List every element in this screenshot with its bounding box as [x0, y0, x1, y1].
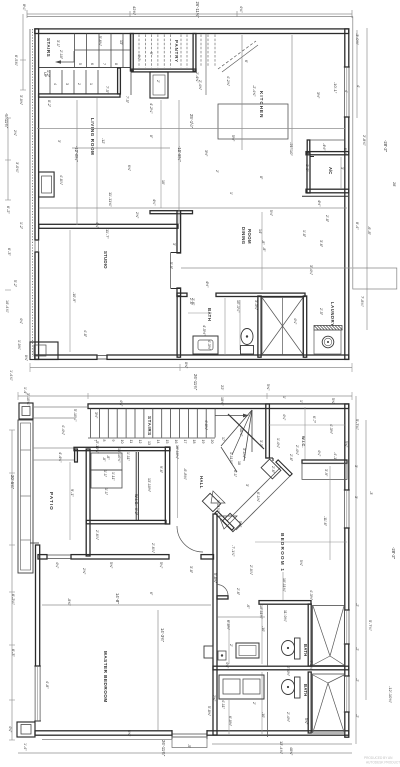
svg-text:11'-11⅝": 11'-11⅝": [108, 192, 113, 207]
plan2 bedroom1 dim lines: [255, 466, 347, 560]
plan2 wic2 south wall: [302, 460, 347, 463]
svg-text:2': 2': [229, 644, 233, 647]
plan1 dining label: [241, 227, 252, 245]
svg-text:2⅝": 2⅝": [82, 568, 86, 575]
svg-text:-6'-8": -6'-8": [367, 226, 372, 236]
plan2 stair south wall: [74, 447, 170, 462]
svg-text:-2': -2': [355, 603, 359, 607]
svg-text:5'-8⅝": 5'-8⅝": [213, 573, 217, 584]
plan2 right wall c: [345, 644, 349, 676]
plan1 kitchen island: [218, 104, 288, 139]
plan2 angled wall lower: [215, 511, 234, 530]
plan2 scattered dims: [55, 398, 337, 737]
plan1 stairs lower treads: [50, 70, 98, 94]
plan2 jamb3: [222, 513, 240, 531]
plan2 toilet2: [282, 677, 301, 698]
svg-text:4¼": 4¼": [282, 414, 286, 421]
plan2 jamb2: [202, 493, 220, 511]
svg-text:4'-5½": 4'-5½": [202, 325, 206, 336]
svg-text:14: 14: [156, 440, 160, 444]
plan1 left margin: [4, 4, 26, 381]
svg-text:1'-8": 1'-8": [302, 230, 306, 238]
plan1 stairs south wall: [39, 68, 121, 97]
plan1 dim vline bath: [188, 298, 225, 355]
svg-text:-10': -10': [261, 626, 265, 632]
svg-text:20'-5¾": 20'-5¾": [10, 475, 15, 490]
svg-text:8⅝": 8⅝": [24, 355, 28, 362]
plan1 dim 4-2: [149, 103, 153, 114]
plan2 top pier: [19, 403, 33, 419]
plan2 right wall a: [345, 404, 349, 490]
svg-text:4'-2⅛": 4'-2⅛": [149, 103, 153, 114]
svg-text:1': 1': [299, 400, 303, 403]
svg-text:17: 17: [221, 437, 225, 441]
svg-text:2': 2': [215, 170, 219, 173]
svg-text:1'-11": 1'-11": [111, 472, 115, 481]
svg-text:-5'-11¾": -5'-11¾": [4, 113, 9, 129]
plan2 bath1 corner fixture: [218, 651, 226, 660]
svg-text:4¾": 4¾": [95, 222, 99, 229]
plan2 bath2 vanity: [219, 675, 264, 699]
svg-text:11: 11: [129, 440, 133, 444]
svg-text:4¾": 4¾": [225, 662, 229, 669]
svg-text:4⅛": 4⅛": [293, 318, 297, 325]
plan1 left siding lines: [30, 29, 32, 357]
svg-text:-2': -2': [355, 647, 359, 651]
plan1 ac niche: [307, 140, 344, 153]
plan1 studio upper wall: [150, 211, 193, 214]
svg-text:BATH: BATH: [207, 308, 212, 321]
svg-text:9'-1": 9'-1": [70, 489, 75, 497]
plan2 right wall d: [345, 712, 349, 737]
svg-text:10'-1¼": 10'-1¼": [236, 300, 240, 313]
svg-text:48⅝": 48⅝": [289, 747, 293, 756]
svg-text:14': 14': [258, 229, 262, 234]
svg-text:26'-11¾": 26'-11¾": [193, 374, 198, 391]
plan2 top dim texts: [23, 384, 286, 406]
plan2 right wall b: [345, 528, 349, 610]
svg-text:13: 13: [147, 441, 151, 445]
plan2 bottom pier: [17, 722, 35, 737]
plan1 stairwell box: [262, 298, 303, 355]
plan2 stairs bottom line: [88, 437, 215, 439]
plan2 angled wall upper: [276, 460, 292, 476]
svg-text:1'-2": 1'-2": [46, 70, 50, 78]
plan1 ac label: [328, 167, 333, 174]
svg-text:LAUNDRY: LAUNDRY: [330, 302, 335, 327]
svg-text:5⅝": 5⅝": [304, 718, 308, 725]
plan2 winder opening line: [228, 414, 264, 449]
svg-text:5⅞": 5⅞": [238, 521, 242, 528]
plan1 left ticks: [5, 60, 26, 290]
plan1 washer: [322, 336, 334, 348]
plan2 watermark: [364, 756, 400, 765]
svg-text:11'-0¾": 11'-0¾": [283, 610, 287, 623]
plan1 bottom pier: [30, 342, 58, 360]
plan2 stairs arrow: [215, 414, 249, 418]
plan1 dim 25-1: [189, 114, 194, 129]
svg-text:BATH: BATH: [303, 684, 308, 697]
svg-text:4'-2⅝": 4'-2⅝": [226, 76, 230, 87]
svg-text:8¼": 8¼": [22, 4, 26, 11]
plan2 bath1 arc: [217, 585, 228, 596]
svg-text:6: 6: [90, 63, 94, 65]
svg-text:8: 8: [114, 63, 118, 65]
svg-text:-6'-8¾": -6'-8¾": [183, 468, 187, 481]
plan1 studio east wall: [171, 211, 182, 296]
svg-text:1': 1': [229, 192, 233, 195]
svg-text:5': 5': [149, 52, 153, 55]
plan1 bath west wall: [177, 296, 180, 357]
plan1 kitchen counter line: [205, 34, 207, 96]
svg-text:18: 18: [237, 461, 241, 465]
svg-text:-21'-10": -21'-10": [289, 142, 294, 156]
svg-text:12: 12: [138, 440, 142, 444]
svg-text:3'-8": 3'-8": [189, 566, 193, 574]
plan1 corner cab dashes: [201, 35, 215, 67]
plan2 bottom margin: [18, 740, 352, 757]
svg-text:6'-7": 6'-7": [312, 416, 316, 424]
plan2 patio south jog: [30, 542, 39, 544]
svg-text:A/C: A/C: [328, 167, 333, 174]
plan2 stair east wall: [266, 404, 270, 458]
plan1 left wall: [35, 29, 39, 360]
svg-text:4: 4: [53, 83, 57, 85]
svg-text:16: 16: [174, 440, 178, 444]
svg-text:15: 15: [165, 440, 169, 444]
plan1 pantry south wall: [132, 69, 196, 72]
svg-text:5⅝": 5⅝": [344, 441, 348, 448]
svg-text:5'-6⅛": 5'-6⅛": [98, 36, 102, 47]
plan1 laundry box: [314, 330, 341, 354]
svg-text:4¼": 4¼": [55, 562, 59, 569]
plan1 dim hline short: [72, 147, 170, 149]
svg-text:-3'-0½": -3'-0½": [355, 33, 359, 46]
svg-text:-4'-1": -4'-1": [333, 452, 337, 461]
plan1 stairs numbers up: [78, 63, 118, 65]
svg-text:3'-6": 3'-6": [319, 240, 323, 248]
plan1 bath vanity: [193, 336, 218, 354]
svg-text:4'-11": 4'-11": [221, 700, 225, 710]
plan1 stairs label: [46, 38, 51, 57]
svg-text:18: 18: [192, 440, 196, 444]
svg-text:-10'-8¾": -10'-8¾": [177, 146, 182, 162]
plan1 bottom wall left: [35, 355, 97, 359]
plan1 ac dim line: [340, 157, 342, 189]
plan1 dim 7-5: [105, 86, 109, 94]
svg-text:6'-3": 6'-3": [11, 649, 16, 657]
svg-text:3': 3': [172, 243, 176, 246]
svg-text:3': 3': [340, 167, 344, 170]
plan1 pantry label: [174, 40, 179, 63]
plan1 ac dims: [305, 143, 344, 207]
plan1 dim vlines kitchen: [242, 35, 292, 150]
svg-text:2⅝": 2⅝": [212, 695, 216, 702]
plan2 right window1: [344, 490, 350, 528]
svg-text:6'-2¼": 6'-2¼": [11, 594, 16, 606]
plan2 stairs numbers: [93, 440, 214, 444]
svg-text:-8": -8": [262, 247, 266, 252]
plan2 bath dim lines: [229, 572, 283, 734]
svg-text:2'-6": 2'-6": [236, 588, 240, 596]
plan1 fireplace: [39, 172, 55, 197]
svg-text:6'-5⅞": 6'-5⅞": [14, 55, 19, 67]
svg-text:26'-11¾": 26'-11¾": [161, 740, 166, 757]
svg-text:4¾": 4¾": [8, 726, 12, 733]
plan1 stairs mid line: [75, 49, 132, 51]
svg-text:-10'-9": -10'-9": [72, 292, 76, 303]
plan2 jamb1: [261, 459, 281, 479]
plan2 wic shelves: [91, 453, 122, 488]
svg-text:5½": 5½": [269, 210, 273, 217]
svg-text:1'-11": 1'-11": [126, 452, 130, 462]
svg-text:6'-2": 6'-2": [134, 508, 138, 516]
svg-text:6'-1⅝": 6'-1⅝": [256, 492, 260, 503]
plan1 dim 21-1: [289, 142, 294, 156]
plan2 right window2: [344, 610, 350, 644]
svg-text:PANTRY: PANTRY: [174, 40, 179, 63]
svg-text:3½": 3½": [94, 412, 98, 419]
svg-text:-12'-10¾": -12'-10¾": [388, 686, 393, 704]
svg-text:8'-4": 8'-4": [355, 222, 359, 230]
svg-text:2'-4⅝": 2'-4⅝": [198, 80, 202, 91]
svg-text:16'-10¾": 16'-10¾": [175, 445, 179, 460]
plan2 west wall: [36, 545, 40, 666]
svg-text:3': 3': [57, 140, 61, 143]
svg-text:4¼": 4¼": [119, 400, 123, 407]
svg-text:-12'-8¼": -12'-8¼": [74, 146, 79, 162]
svg-text:1'-1": 1'-1": [103, 470, 107, 478]
svg-text:2'-6⅞": 2'-6⅞": [95, 530, 99, 541]
svg-text:3'-0⅝": 3'-0⅝": [15, 162, 19, 173]
svg-text:13': 13': [119, 40, 123, 45]
svg-text:-28'-2": -28'-2": [383, 140, 388, 153]
plan1 outer boundary: [27, 17, 353, 269]
svg-text:22': 22': [220, 385, 225, 390]
plan2 wic2 label: [301, 436, 306, 448]
plan2 bath2 label: [303, 684, 308, 697]
svg-text:-8": -8": [106, 455, 110, 460]
plan2 wic label: [134, 494, 139, 506]
plan1 top wall: [35, 29, 349, 34]
plan2 corridor arc: [177, 526, 203, 552]
svg-text:1'-1": 1'-1": [104, 488, 108, 496]
svg-text:3'-0⅝": 3'-0⅝": [19, 95, 23, 106]
svg-text:5'-9": 5'-9": [169, 262, 173, 270]
plan2 patio dims: [26, 393, 77, 497]
plan1 stairwell X: [262, 298, 303, 355]
svg-text:2'-0⅞": 2'-0⅞": [249, 565, 253, 576]
svg-text:9'-6": 9'-6": [159, 466, 163, 474]
plan1 kitchen label: [259, 91, 264, 118]
plan2 closet band: [227, 467, 290, 530]
plan2 stairs label: [147, 416, 152, 445]
svg-text:6'-3": 6'-3": [7, 248, 12, 256]
svg-text:STAIRS: STAIRS: [147, 416, 152, 436]
svg-text:16'-4⅞": 16'-4⅞": [5, 300, 9, 313]
svg-text:3: 3: [65, 83, 69, 85]
plan2 bottom slider: [172, 730, 207, 739]
plan2 hall-bath wall: [213, 514, 217, 735]
plan1 studio north wall: [39, 224, 178, 228]
svg-text:PRODUCED BY AN: PRODUCED BY AN: [364, 756, 393, 760]
svg-text:-2': -2': [355, 678, 359, 682]
plan1 right wall window: [344, 67, 350, 117]
plan1 bath north wall: [177, 293, 305, 296]
svg-text:5⅝": 5⅝": [266, 384, 270, 391]
svg-text:-5': -5': [187, 744, 191, 748]
svg-text:5⅝": 5⅝": [109, 562, 113, 569]
svg-text:DINING: DINING: [241, 227, 246, 245]
plan1 bottom wall right: [107, 355, 349, 359]
svg-text:48⅝": 48⅝": [239, 428, 243, 437]
svg-text:18⅝": 18⅝": [220, 397, 224, 406]
svg-text:-6": -6": [246, 604, 250, 609]
svg-text:2⅝": 2⅝": [135, 212, 139, 219]
svg-text:11'-7": 11'-7": [105, 229, 110, 239]
svg-text:4¼": 4¼": [137, 54, 141, 61]
svg-text:6'-0½": 6'-0½": [226, 620, 230, 631]
plan2 tub1 wall: [308, 604, 311, 666]
svg-text:5⅝": 5⅝": [127, 730, 131, 737]
svg-text:STAIRS: STAIRS: [46, 38, 51, 57]
plan2 patio label: [49, 492, 54, 511]
svg-text:1: 1: [89, 83, 93, 85]
svg-text:2: 2: [77, 83, 81, 85]
svg-text:4': 4': [356, 85, 360, 88]
plan1 dining dims: [258, 229, 266, 252]
svg-text:1'-11⅞": 1'-11⅞": [229, 452, 233, 465]
plan1 dim vline mid: [178, 100, 180, 224]
svg-text:5'-7¾": 5'-7¾": [368, 620, 373, 632]
plan2 top dim line: [18, 392, 352, 400]
svg-text:BATH: BATH: [303, 644, 308, 657]
plan2 scattered extra: [95, 448, 303, 596]
plan2 porch lines: [33, 407, 88, 418]
svg-text:10: 10: [120, 440, 124, 444]
svg-text:4'-3½": 4'-3½": [309, 660, 313, 671]
plan1 top dim text: [132, 2, 243, 19]
plan2 top wall: [88, 404, 349, 409]
plan1 dim 11-11: [108, 192, 156, 207]
plan1 bottom margin: [30, 362, 352, 391]
svg-text:10'-11¾": 10'-11¾": [259, 605, 263, 620]
svg-text:4¼": 4¼": [317, 450, 321, 457]
svg-text:3½": 3½": [316, 92, 320, 99]
svg-text:-8": -8": [261, 240, 265, 245]
svg-text:10': 10': [161, 180, 165, 185]
svg-text:3'-1": 3'-1": [56, 40, 60, 48]
svg-text:3'-3": 3'-3": [259, 440, 263, 448]
plan1 stairs lower labels: [43, 72, 93, 85]
plan2 master label: [103, 651, 108, 703]
plan1 dim vline living: [77, 98, 161, 225]
plan2 hall west wall: [165, 447, 169, 524]
svg-text:5½": 5½": [231, 135, 235, 142]
plan2 tub2: [313, 674, 345, 733]
plan1 dim 10-1k: [333, 82, 338, 94]
plan2 hall label: [199, 476, 204, 489]
plan1 right margin: [355, 28, 397, 330]
svg-text:7'-5": 7'-5": [125, 96, 129, 104]
svg-text:17: 17: [183, 440, 187, 444]
plan1 left margin extra: [5, 95, 28, 362]
svg-text:5⅝": 5⅝": [299, 560, 303, 567]
plan1 scattered dims: [46, 36, 348, 351]
svg-text:6'-1": 6'-1": [233, 470, 237, 478]
svg-text:ROOM: ROOM: [247, 229, 252, 244]
svg-text:MASTER BEDROOM: MASTER BEDROOM: [103, 651, 108, 703]
plan1 pantry shelving: [139, 35, 187, 68]
plan2 master north wall: [38, 555, 169, 559]
svg-text:STUDIO: STUDIO: [103, 251, 108, 269]
svg-text:3'-3¼": 3'-3¼": [254, 300, 258, 311]
plan2 bottom wall right: [207, 731, 349, 735]
svg-text:3'-10⅝": 3'-10⅝": [26, 393, 30, 406]
svg-text:4'-8": 4'-8": [45, 681, 49, 689]
svg-text:4½": 4½": [205, 281, 209, 288]
plan1 dim hline dining: [181, 267, 352, 269]
svg-text:3': 3': [354, 465, 358, 468]
svg-text:2': 2': [252, 702, 256, 705]
svg-text:2'-6": 2'-6": [271, 466, 275, 474]
svg-text:4'-8⅞": 4'-8⅞": [59, 175, 63, 186]
plan1 right wall upper: [345, 29, 349, 67]
svg-text:16'-10¾": 16'-10¾": [117, 448, 121, 463]
svg-text:-10': -10': [261, 712, 265, 718]
svg-text:1'-4¾": 1'-4¾": [276, 438, 280, 449]
svg-text:4'-8": 4'-8": [83, 330, 87, 338]
svg-text:5: 5: [78, 63, 82, 65]
plan2 hall door tri: [211, 491, 225, 503]
plan1 dim 6ft: [244, 60, 248, 63]
plan2 bath1 stub: [217, 596, 228, 599]
svg-text:2'-4½": 2'-4½": [286, 712, 290, 723]
plan1 dim 12-8: [74, 146, 79, 162]
plan2 hall dim line: [178, 446, 188, 518]
svg-text:42⅝": 42⅝": [132, 6, 137, 16]
svg-text:4': 4': [344, 90, 348, 93]
svg-text:19: 19: [201, 440, 205, 444]
plan2 master dim v: [158, 610, 165, 730]
plan1 top dimension line: [27, 10, 352, 18]
svg-text:5'-8⅝": 5'-8⅝": [207, 706, 211, 717]
svg-text:25'-1½": 25'-1½": [189, 114, 194, 129]
plan2 tub2 wall: [308, 672, 311, 733]
plan2 bottom wall left: [35, 731, 172, 735]
svg-text:LIVING ROOM: LIVING ROOM: [90, 118, 95, 155]
svg-text:4'-3½": 4'-3½": [309, 590, 313, 601]
svg-text:3': 3': [245, 484, 249, 487]
plan2 bed door tri: [219, 516, 237, 529]
svg-text:2'-10": 2'-10": [59, 50, 63, 60]
svg-text:1': 1': [282, 396, 286, 399]
svg-text:-12': -12': [101, 138, 105, 144]
svg-text:2'-8": 2'-8": [325, 215, 329, 223]
svg-text:2'-4½": 2'-4½": [286, 666, 290, 677]
plan1 dim vline studio: [69, 230, 71, 352]
svg-text:5'-10¼": 5'-10¼": [73, 409, 77, 422]
svg-text:-5'-10¼": -5'-10¼": [95, 440, 99, 454]
plan2 railing strip: [18, 420, 33, 573]
plan2 tub1: [313, 606, 345, 666]
svg-text:2'-6⅞": 2'-6⅞": [151, 543, 155, 554]
svg-text:7'-5": 7'-5": [105, 86, 109, 94]
svg-text:6'-0½": 6'-0½": [228, 716, 232, 727]
svg-text:4'-4¾": 4'-4¾": [58, 452, 62, 463]
svg-text:AUTODESK PRODUCT: AUTODESK PRODUCT: [366, 761, 400, 765]
svg-text:6'-2": 6'-2": [6, 206, 11, 214]
